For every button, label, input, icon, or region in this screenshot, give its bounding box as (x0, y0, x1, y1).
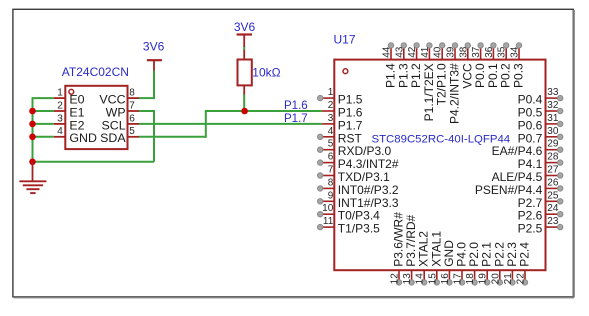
svg-text:22: 22 (516, 273, 527, 285)
svg-text:E1: E1 (69, 105, 84, 119)
svg-text:RXD/P3.0: RXD/P3.0 (338, 144, 392, 158)
U17 pin 44 P1.4 (382, 43, 398, 88)
U17 pin 10 T0/P3.4 (318, 203, 381, 223)
power terminal 3V6 (resistor) (237, 35, 252, 48)
svg-text:26: 26 (547, 177, 559, 188)
wire: SCL net P1.7 horizontal (139, 123, 322, 125)
svg-text:12: 12 (390, 273, 401, 285)
svg-text:18: 18 (465, 273, 476, 285)
svg-text:AT24C02CN: AT24C02CN (62, 65, 129, 79)
U17 pin 21 P2.3 (503, 242, 519, 285)
wire: EEPROM VCC pin8 to 3V6 riser (139, 97, 154, 99)
svg-text:30: 30 (547, 126, 559, 137)
svg-text:7: 7 (129, 100, 135, 111)
U17 pin 39 P4.2/INT3# (446, 43, 462, 124)
wire: resistor bottom to P1.6 net vertical (243, 94, 245, 111)
svg-text:25: 25 (547, 190, 559, 201)
MCU pin-1 indicator circle (343, 69, 348, 74)
svg-text:TXD/P3.1: TXD/P3.1 (338, 170, 390, 184)
svg-text:34: 34 (510, 46, 521, 58)
wire: P1.6 net horizontal to MCU pin2 (205, 110, 322, 112)
U17 pin 13 P3.7/RD# (402, 214, 418, 285)
svg-text:STC89C52RC-40I-LQFP44: STC89C52RC-40I-LQFP44 (372, 133, 511, 145)
svg-text:P2.7: P2.7 (518, 196, 543, 210)
U17 pin 6 P4.3/INT2# (318, 152, 399, 172)
svg-text:44: 44 (382, 46, 393, 58)
svg-text:24: 24 (547, 203, 559, 214)
wire: SDA net horizontal from EEPROM pin5 (139, 136, 206, 138)
EEPROM pin 4 GND (54, 126, 97, 145)
svg-text:15: 15 (427, 273, 438, 285)
EEPROM pin 7 WP (106, 100, 139, 119)
svg-text:6: 6 (328, 152, 334, 163)
U17 pin 34 P0.3 (510, 43, 526, 88)
svg-text:4: 4 (57, 126, 63, 137)
svg-text:P0.5: P0.5 (518, 106, 543, 120)
svg-text:P4.1: P4.1 (518, 157, 543, 171)
EEPROM pin 3 E2 (54, 113, 85, 132)
svg-text:10: 10 (322, 203, 334, 214)
svg-text:INT0#/P3.2: INT0#/P3.2 (338, 183, 399, 197)
U17 pin 9 INT1#/P3.3 (318, 190, 399, 210)
svg-text:23: 23 (547, 216, 559, 227)
svg-text:3V6: 3V6 (234, 20, 256, 34)
U17 pin 40 T2/P1.0 (433, 43, 449, 106)
svg-text:3: 3 (57, 113, 63, 124)
svg-text:EA#/P4.6: EA#/P4.6 (492, 144, 543, 158)
wire: EEPROM WP pin7 to riser (139, 110, 155, 112)
wire: EEPROM pin 4 row to bus (32, 136, 54, 138)
svg-text:42: 42 (407, 46, 418, 58)
svg-text:2: 2 (57, 100, 63, 111)
MCU U17 body (334, 60, 545, 271)
U17 pin 27 ALE/P4.5 (492, 165, 563, 185)
svg-text:14: 14 (415, 273, 426, 285)
U17 pin 43 P1.3 (394, 43, 410, 88)
junction: bus / pin4 row (29, 134, 36, 141)
junction: bus / pin2 row (29, 108, 36, 115)
U17 pin 3 P1.7 (322, 113, 363, 132)
svg-text:17: 17 (453, 273, 464, 285)
resistor 10k bottom pin (243, 85, 245, 95)
wire: ground bus to WP riser horizontal (33, 161, 155, 163)
svg-text:8: 8 (328, 177, 334, 188)
svg-text:3V6: 3V6 (143, 40, 165, 54)
EEPROM pin 8 VCC (99, 88, 139, 107)
svg-text:19: 19 (478, 273, 489, 285)
U17 pin 41 P1.1/T2EX (420, 43, 436, 122)
svg-text:29: 29 (547, 139, 559, 150)
svg-text:P0.6: P0.6 (518, 118, 543, 132)
U17 pin 14 XTAL2 (415, 231, 431, 285)
svg-text:5: 5 (328, 139, 334, 150)
svg-text:6: 6 (129, 113, 135, 124)
U17 pin 24 P2.6 (518, 203, 563, 223)
svg-text:P2.6: P2.6 (518, 209, 543, 223)
U17 pin 7 TXD/P3.1 (318, 165, 391, 185)
svg-text:32: 32 (547, 100, 559, 111)
svg-text:T0/P3.4: T0/P3.4 (338, 209, 380, 223)
svg-text:2: 2 (328, 100, 334, 111)
junction: bus / pin3 row (29, 121, 36, 128)
svg-text:35: 35 (497, 46, 508, 58)
svg-text:P1.6: P1.6 (338, 106, 363, 120)
svg-text:RST: RST (338, 131, 363, 145)
ground (19, 162, 46, 193)
U17 pin 25 P2.7 (518, 190, 563, 210)
resistor 10k body (238, 60, 252, 86)
svg-text:VCC: VCC (99, 93, 125, 107)
EEPROM pin 6 SCL (101, 113, 139, 132)
svg-text:5: 5 (129, 126, 135, 137)
power terminal 3V6 (EEPROM VCC) (147, 60, 162, 70)
EEPROM pin-1 indicator circle (69, 89, 74, 94)
svg-text:P0.4: P0.4 (518, 93, 543, 107)
U17 pin 30 P0.7 (518, 126, 563, 146)
resistor 10k top pin (243, 50, 245, 60)
wire: EEPROM pin 1 row to bus (32, 97, 54, 99)
EEPROM pin 1 E0 (54, 88, 85, 107)
svg-text:8: 8 (129, 88, 135, 99)
U17 pin 22 P2.4 (516, 242, 532, 285)
U17 pin 20 P2.2 (490, 242, 506, 285)
junction: resistor / P1.6 net (241, 108, 248, 115)
U17 pin 37 P0.0 (471, 43, 487, 88)
svg-text:11: 11 (323, 216, 334, 227)
svg-text:SCL: SCL (101, 118, 125, 132)
svg-text:38: 38 (458, 46, 469, 58)
svg-text:31: 31 (547, 113, 559, 124)
svg-text:1: 1 (57, 88, 63, 99)
U17 pin 26 PSEN#/P4.4 (475, 177, 563, 197)
svg-text:4: 4 (328, 126, 334, 137)
wire: WP riser vertical (153, 111, 155, 162)
svg-text:E0: E0 (69, 93, 84, 107)
U17 pin 1 P1.5 (318, 87, 363, 107)
svg-text:7: 7 (328, 165, 334, 176)
svg-text:P1.5: P1.5 (338, 93, 363, 107)
svg-text:36: 36 (484, 46, 495, 58)
EEPROM AT24C02CN body (65, 86, 127, 149)
svg-text:21: 21 (503, 273, 514, 285)
svg-text:37: 37 (471, 46, 482, 58)
U17 pin 19 P2.1 (478, 242, 494, 285)
U17 pin 17 P4.0 (453, 242, 469, 285)
U17 pin 28 P4.1 (518, 152, 563, 172)
svg-text:41: 41 (420, 46, 431, 58)
svg-text:INT1#/P3.3: INT1#/P3.3 (338, 196, 399, 210)
U17 pin 23 P2.5 (518, 216, 563, 236)
U17 pin 38 VCC (458, 43, 474, 89)
U17 pin 31 P0.6 (518, 113, 563, 132)
U17 pin 29 EA#/P4.6 (492, 139, 563, 159)
svg-text:1: 1 (328, 87, 334, 98)
svg-text:P1.7: P1.7 (338, 118, 363, 132)
svg-text:U17: U17 (334, 33, 356, 47)
svg-text:16: 16 (440, 273, 451, 285)
U17 pin 5 RXD/P3.0 (318, 139, 392, 159)
U17 pin 11 T1/P3.5 (318, 216, 381, 236)
svg-text:20: 20 (490, 273, 501, 285)
svg-text:T1/P3.5: T1/P3.5 (338, 222, 380, 236)
svg-text:E2: E2 (69, 118, 84, 132)
U17 pin 12 P3.6/WR# (390, 212, 406, 285)
svg-text:43: 43 (394, 46, 405, 58)
U17 pin 18 P2.0 (465, 242, 481, 285)
U17 pin 32 P0.5 (518, 100, 563, 120)
U17 pin 35 P0.2 (497, 43, 513, 88)
svg-text:3: 3 (328, 113, 334, 124)
svg-text:10kΩ: 10kΩ (252, 66, 280, 80)
U17 pin 15 XTAL1 (427, 231, 443, 285)
svg-text:9: 9 (328, 190, 334, 201)
wire: EEPROM left ground bus vertical (32, 98, 34, 162)
svg-text:P2.5: P2.5 (518, 222, 543, 236)
svg-text:13: 13 (402, 273, 413, 285)
svg-text:P0.3: P0.3 (512, 63, 526, 88)
U17 pin 16 GND (440, 240, 456, 285)
svg-text:SDA: SDA (100, 131, 126, 145)
svg-text:P1.6: P1.6 (284, 100, 308, 112)
svg-text:27: 27 (547, 165, 559, 176)
U17 pin 42 P1.2 (407, 43, 423, 88)
U17 pin 33 P0.4 (518, 87, 563, 107)
junction: bus / ground (29, 159, 36, 166)
svg-text:ALE/P4.5: ALE/P4.5 (492, 170, 543, 184)
U17 pin 8 INT0#/P3.2 (318, 177, 399, 197)
U17 pin 36 P0.1 (484, 43, 500, 88)
wire: 3V6 terminal to resistor top (243, 47, 245, 50)
U17 pin 4 RST (318, 126, 363, 146)
svg-text:P4.3/INT2#: P4.3/INT2# (338, 157, 399, 171)
svg-text:40: 40 (433, 46, 444, 58)
EEPROM pin 2 E1 (54, 100, 85, 119)
svg-text:28: 28 (547, 152, 559, 163)
svg-text:39: 39 (446, 46, 457, 58)
svg-text:PSEN#/P4.4: PSEN#/P4.4 (475, 183, 543, 197)
U17 pin 2 P1.6 (322, 100, 363, 120)
svg-text:P1.7: P1.7 (284, 113, 308, 125)
svg-text:33: 33 (547, 87, 559, 98)
wire: EEPROM pin 3 row to bus (32, 123, 54, 125)
EEPROM pin 5 SDA (100, 126, 139, 145)
wire: 3V6 riser vertical (EEPROM VCC) (153, 70, 155, 99)
wire: SDA net riser vertical (205, 111, 207, 138)
svg-text:P0.7: P0.7 (518, 131, 543, 145)
svg-text:WP: WP (106, 105, 126, 119)
svg-text:GND: GND (69, 131, 97, 145)
wire: EEPROM pin 2 row to bus (32, 110, 54, 112)
svg-text:P2.4: P2.4 (518, 242, 532, 267)
